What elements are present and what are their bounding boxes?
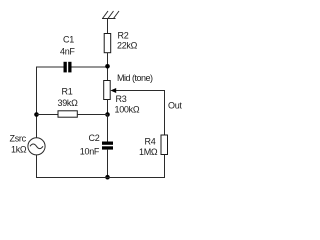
- svg-text:Zsrc: Zsrc: [10, 134, 27, 144]
- resistor R4: [161, 135, 168, 155]
- svg-text:Out: Out: [168, 101, 182, 111]
- junction node A: [105, 112, 110, 117]
- svg-text:4nF: 4nF: [60, 47, 75, 57]
- svg-text:C2: C2: [89, 133, 100, 143]
- svg-text:10nF: 10nF: [80, 147, 100, 157]
- svg-text:R2: R2: [118, 31, 129, 41]
- source Zsrc: [28, 138, 45, 155]
- svg-text:22kΩ: 22kΩ: [117, 41, 138, 51]
- wire R1 to node A: [77, 114, 107, 116]
- wire C2 to bottom rail: [107, 150, 109, 178]
- svg-text:R4: R4: [145, 137, 156, 147]
- potentiometer R3 body: [104, 81, 111, 100]
- capacitor C1: [64, 62, 72, 73]
- svg-text:1kΩ: 1kΩ: [11, 145, 27, 155]
- junction left rail R1: [34, 112, 39, 117]
- wire R4 to bottom rail: [164, 155, 166, 179]
- source Zsrc sine: [30, 144, 43, 149]
- svg-text:100kΩ: 100kΩ: [115, 105, 140, 115]
- resistor R1: [58, 111, 77, 117]
- svg-text:39kΩ: 39kΩ: [58, 98, 79, 108]
- wire wiper to Out rail: [116, 90, 165, 92]
- ground: [102, 11, 119, 19]
- junction bottom node: [105, 175, 110, 180]
- wire R2 to node Mid: [107, 53, 109, 81]
- wire left rail top: [36, 67, 38, 138]
- svg-text:R1: R1: [62, 87, 73, 97]
- wire R3 bottom to node A: [107, 100, 109, 142]
- wire node A to C2: [107, 115, 109, 142]
- wire left rail to R1: [37, 114, 59, 116]
- svg-text:Mid (tone): Mid (tone): [117, 73, 153, 83]
- svg-text:1MΩ: 1MΩ: [139, 147, 158, 157]
- wire ground to R2: [107, 19, 109, 35]
- potentiometer R3 wiper arrow: [110, 88, 116, 93]
- svg-text:C1: C1: [63, 35, 74, 45]
- wire Out rail vertical: [164, 90, 166, 135]
- wire Zsrc to bottom rail: [36, 155, 38, 178]
- wire C1 top horizontal left segment: [37, 66, 64, 68]
- wire bottom rail: [36, 177, 165, 179]
- resistor R2: [104, 34, 111, 53]
- svg-text:R3: R3: [116, 94, 127, 104]
- wire C1 to node Mid: [72, 66, 108, 68]
- junction node Mid: [105, 64, 110, 69]
- capacitor C2: [102, 142, 113, 150]
